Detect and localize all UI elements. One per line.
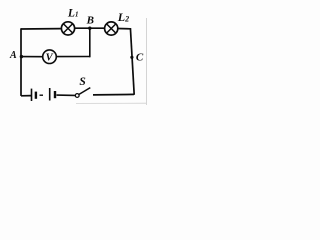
lamp L2 — [105, 22, 118, 35]
node A junction dot — [20, 55, 23, 58]
svg-text:C: C — [136, 51, 144, 63]
svg-text:A: A — [9, 50, 17, 61]
wire riser up to B — [89, 28, 91, 57]
wire L2 to top-right corner — [118, 28, 130, 30]
battery cell1 long plate — [31, 89, 33, 101]
wire between cells — [40, 94, 44, 96]
scan artifact: faint right edge — [145, 18, 147, 105]
switch lever — [79, 88, 90, 95]
wire switch to bottom-right corner — [93, 93, 134, 96]
switch pivot circle — [75, 94, 79, 98]
wire L1 to L2 through B — [75, 27, 105, 29]
lamp L1 — [61, 22, 74, 35]
battery cell2 short plate — [54, 91, 56, 98]
svg-text:B: B — [86, 14, 94, 26]
node B junction dot — [88, 27, 91, 30]
wire voltmeter to riser — [56, 56, 90, 58]
wire right vertical — [130, 28, 134, 95]
svg-text:S: S — [79, 76, 85, 88]
wire left vertical — [20, 28, 22, 96]
voltmeter V — [43, 50, 57, 64]
wire battery to switch — [57, 94, 76, 96]
wire bottom-left corner to battery — [21, 95, 31, 97]
node C dot — [130, 56, 133, 59]
svg-text:V: V — [46, 53, 54, 64]
battery cell1 short plate — [35, 92, 37, 99]
wire A to voltmeter — [21, 56, 43, 58]
scan artifact: faint bottom smudge — [76, 102, 146, 104]
battery cell2 long plate — [49, 88, 51, 101]
wire top-left: corner to lamp L1 — [21, 28, 61, 30]
